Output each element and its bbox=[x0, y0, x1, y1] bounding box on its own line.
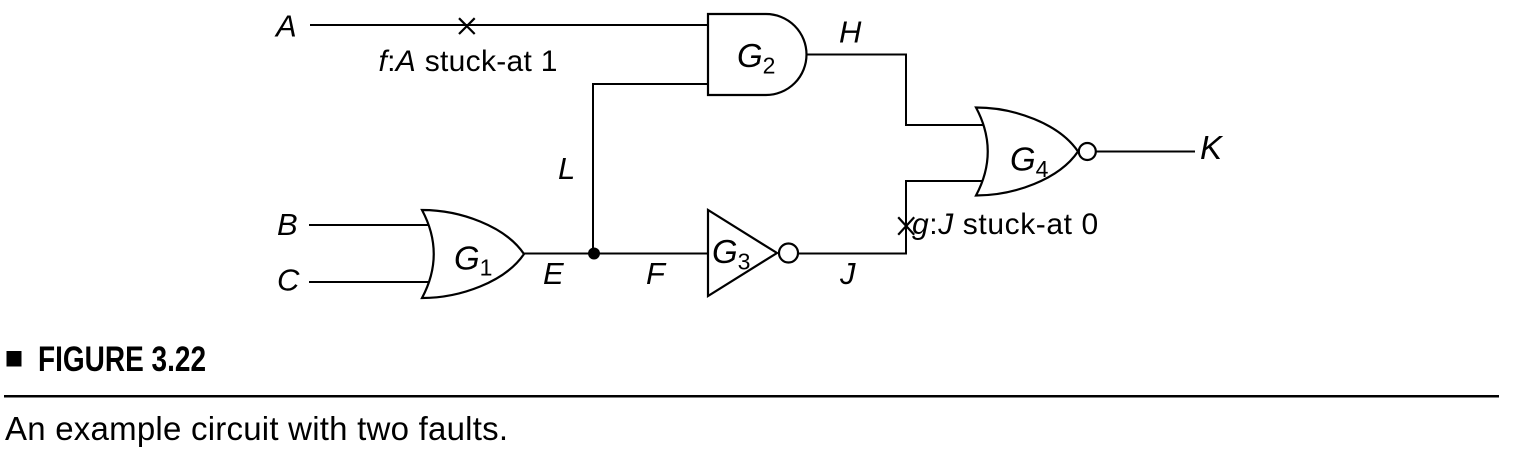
svg-text:H: H bbox=[839, 15, 862, 50]
svg-text:E: E bbox=[543, 256, 564, 291]
svg-text:C: C bbox=[277, 263, 300, 298]
svg-text:An example circuit with two fa: An example circuit with two faults. bbox=[5, 410, 508, 447]
svg-text:g:J stuck-at 0: g:J stuck-at 0 bbox=[912, 208, 1099, 241]
svg-text:B: B bbox=[277, 207, 298, 242]
svg-text:f:A stuck-at 1: f:A stuck-at 1 bbox=[379, 45, 558, 78]
svg-text:K: K bbox=[1200, 129, 1224, 166]
svg-text:J: J bbox=[839, 256, 856, 291]
svg-text:FIGURE 3.22: FIGURE 3.22 bbox=[38, 339, 206, 379]
svg-text:F: F bbox=[646, 256, 667, 291]
svg-text:A: A bbox=[274, 9, 297, 44]
svg-text:L: L bbox=[558, 151, 575, 186]
